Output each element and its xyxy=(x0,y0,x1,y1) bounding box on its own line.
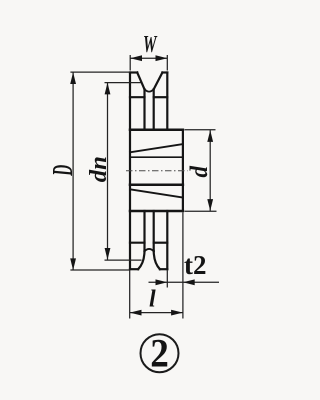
svg-text:W: W xyxy=(143,32,158,58)
svg-text:t2: t2 xyxy=(184,250,207,280)
svg-text:D: D xyxy=(48,165,79,177)
svg-text:l: l xyxy=(149,287,156,313)
svg-text:d: d xyxy=(186,165,213,177)
svg-text:dn: dn xyxy=(86,156,112,182)
svg-text:2: 2 xyxy=(150,330,169,375)
